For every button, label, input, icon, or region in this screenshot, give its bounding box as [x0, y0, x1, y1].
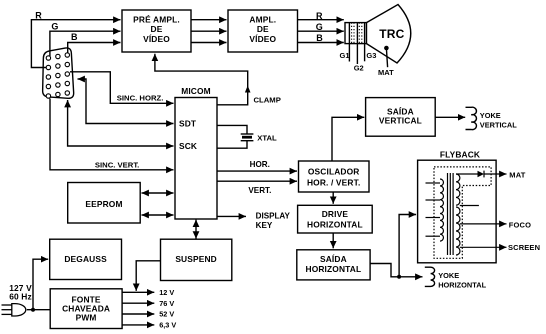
svg-text:B: B [71, 32, 78, 42]
svg-text:VERT.: VERT. [248, 186, 271, 195]
svg-text:G3: G3 [366, 51, 376, 60]
svg-text:FLYBACK: FLYBACK [440, 150, 480, 160]
svg-text:R: R [316, 11, 323, 21]
svg-text:PWM: PWM [76, 312, 97, 322]
svg-text:G: G [316, 22, 323, 32]
svg-text:DRIVE: DRIVE [322, 209, 349, 219]
svg-text:G1: G1 [340, 51, 350, 60]
svg-text:DEGAUSS: DEGAUSS [64, 254, 107, 264]
svg-text:DE: DE [257, 24, 269, 34]
svg-text:6,3 V: 6,3 V [159, 321, 176, 330]
svg-text:52 V: 52 V [159, 310, 174, 319]
svg-text:MAT: MAT [378, 68, 394, 77]
svg-text:VERTICAL: VERTICAL [480, 120, 517, 129]
svg-text:VERTICAL: VERTICAL [379, 115, 422, 125]
svg-text:OSCILADOR: OSCILADOR [308, 167, 360, 177]
svg-text:76 V: 76 V [159, 299, 174, 308]
svg-text:HORIZONTAL: HORIZONTAL [306, 264, 362, 274]
svg-text:DE: DE [151, 24, 163, 34]
svg-text:B: B [316, 33, 323, 43]
svg-text:SCK: SCK [179, 141, 197, 151]
svg-text:SUSPEND: SUSPEND [175, 254, 217, 264]
svg-text:YOKE: YOKE [438, 271, 459, 280]
svg-text:12 V: 12 V [159, 288, 174, 297]
svg-text:AMPL.: AMPL. [249, 15, 276, 25]
svg-text:VÍDEO: VÍDEO [249, 33, 276, 44]
svg-text:HOR. / VERT.: HOR. / VERT. [307, 177, 360, 187]
svg-text:KEY: KEY [256, 221, 273, 230]
svg-text:MICOM: MICOM [181, 86, 211, 96]
svg-text:SINC. VERT.: SINC. VERT. [95, 160, 139, 169]
svg-text:HORIZONTAL: HORIZONTAL [438, 280, 486, 289]
svg-text:G: G [51, 22, 58, 32]
svg-text:PRÉ AMPL.: PRÉ AMPL. [133, 14, 180, 25]
svg-text:YOKE: YOKE [480, 111, 501, 120]
svg-text:HOR.: HOR. [250, 160, 270, 169]
svg-text:EEPROM: EEPROM [85, 199, 122, 209]
svg-text:MAT: MAT [509, 171, 525, 180]
svg-text:R: R [35, 10, 42, 20]
svg-text:60 Hz: 60 Hz [9, 292, 32, 302]
svg-text:SDT: SDT [179, 119, 197, 129]
svg-text:SCREEN: SCREEN [508, 243, 540, 252]
svg-text:SAÍDA: SAÍDA [320, 253, 347, 264]
svg-text:DISPLAY: DISPLAY [256, 212, 291, 221]
svg-text:XTAL: XTAL [257, 133, 277, 142]
svg-text:G2: G2 [354, 64, 364, 73]
svg-text:SINC. HORZ.: SINC. HORZ. [117, 94, 164, 103]
svg-text:CLAMP: CLAMP [254, 96, 281, 105]
svg-text:TRC: TRC [379, 27, 404, 41]
svg-text:VÍDEO: VÍDEO [143, 33, 170, 44]
svg-text:HORIZONTAL: HORIZONTAL [307, 219, 363, 229]
svg-text:FOCO: FOCO [509, 220, 531, 229]
